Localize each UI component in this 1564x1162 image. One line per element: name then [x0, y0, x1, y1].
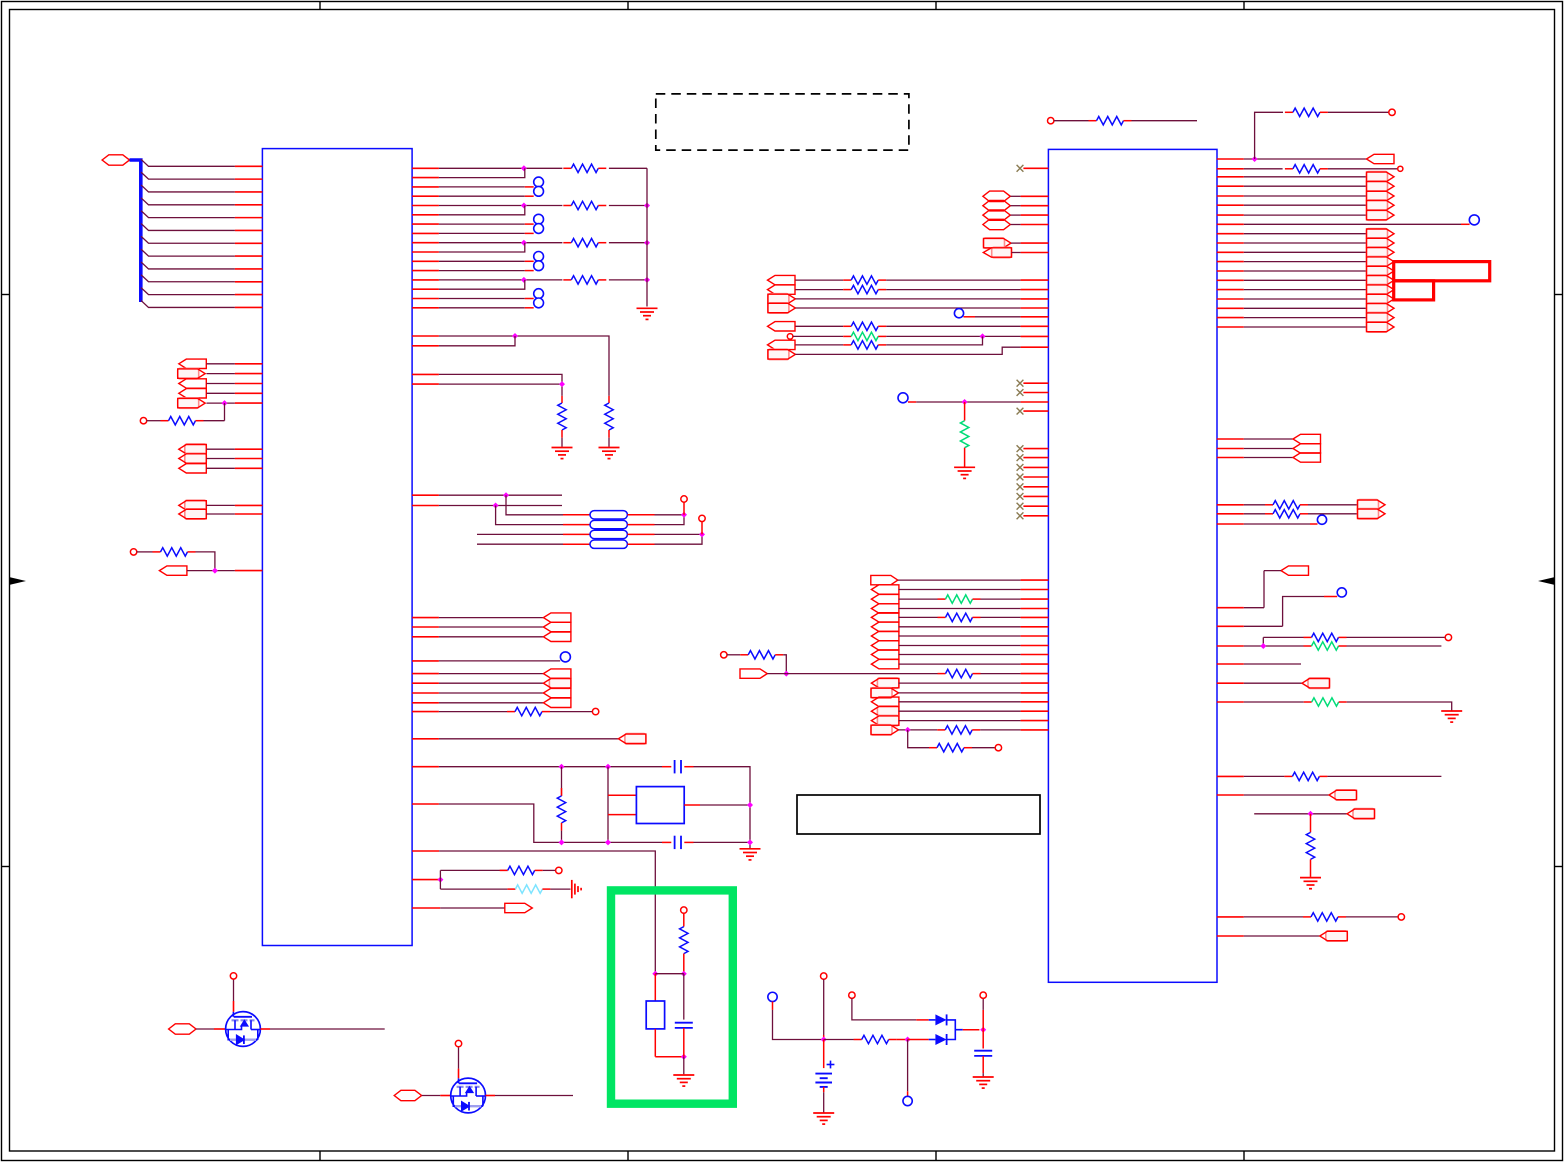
junction [699, 531, 705, 537]
junction [521, 165, 527, 171]
highlight box red 2 [1394, 281, 1434, 300]
port flag [871, 650, 899, 659]
junction [521, 240, 527, 246]
port flag [871, 575, 898, 584]
port flag [871, 697, 899, 706]
wire [608, 438, 610, 447]
wire [982, 1030, 984, 1049]
wire [1244, 775, 1285, 777]
no-connect pin [1017, 474, 1024, 481]
diode D1 [935, 1014, 946, 1025]
ground rail [637, 307, 658, 309]
battery BT1 [823, 1040, 825, 1069]
wire [824, 1039, 854, 1041]
pin stub U1 right 10 [412, 251, 439, 253]
wire drain Q1 [233, 1001, 235, 1012]
wire bus bit 11 [141, 300, 235, 307]
wire R2 to rail [609, 205, 647, 207]
wire to R1 [439, 167, 563, 169]
port flag [1281, 566, 1309, 575]
port flag [1367, 181, 1388, 191]
open pin circle [1389, 109, 1395, 115]
resistor R18 [843, 325, 851, 327]
pin stub U1 left 8 [235, 268, 263, 270]
port flag [1367, 256, 1388, 266]
wire [422, 1095, 441, 1097]
highlight box red [1394, 262, 1490, 281]
wire [1461, 223, 1470, 225]
wire [907, 1040, 909, 1092]
port flag [877, 706, 899, 716]
wire [795, 347, 1020, 354]
port flag [1367, 266, 1388, 276]
pin stub U1 right 1 [412, 167, 439, 169]
wire [1244, 523, 1310, 525]
pin stub U1 right 7 [412, 223, 439, 225]
wire [795, 289, 843, 291]
wire [439, 660, 560, 662]
wire [899, 692, 1021, 694]
wire pair join 0 [439, 168, 525, 177]
wire [1244, 682, 1302, 684]
wire [1244, 233, 1367, 235]
wire [207, 467, 235, 469]
wire [439, 738, 619, 740]
wire drain Q2 [458, 1069, 460, 1079]
wire [1244, 242, 1367, 244]
pin stub [412, 660, 439, 662]
wire [700, 804, 750, 806]
wire [1308, 504, 1358, 506]
port flag [1367, 238, 1388, 248]
port flag [543, 688, 571, 697]
wire [1254, 813, 1347, 815]
wire [439, 702, 544, 704]
port flag [1367, 154, 1395, 163]
pin stub U1 right 14 [412, 288, 439, 290]
wire [1244, 298, 1367, 300]
junction [681, 512, 687, 518]
wire [963, 1029, 980, 1031]
ground [552, 447, 573, 449]
wire source Q1 [260, 1028, 270, 1030]
resistor R36 [1310, 814, 1312, 833]
port flag [178, 368, 199, 378]
pad circle 2b [534, 261, 544, 271]
resistor R33 [1304, 645, 1312, 647]
pin stub [412, 850, 439, 852]
wire [1324, 596, 1337, 598]
wire [655, 534, 703, 544]
resistor R35 [1284, 775, 1292, 777]
wire [964, 316, 976, 318]
pad circle [560, 652, 570, 662]
resistor R24 [740, 654, 748, 656]
wire [439, 336, 609, 396]
wire bus bit 3 [141, 198, 235, 205]
port flag [1293, 453, 1321, 462]
wire [1011, 242, 1021, 244]
no-connect pin [1017, 389, 1024, 396]
pin stub [412, 738, 439, 740]
wire [767, 673, 786, 675]
resistor R5 [161, 420, 169, 422]
wire [561, 438, 563, 447]
wire [439, 711, 507, 713]
wire [795, 307, 1020, 309]
open pin circle [1398, 166, 1403, 171]
pin stub U1 left 11 [235, 306, 263, 308]
open pin circle [130, 549, 136, 555]
wire [982, 1010, 984, 1030]
wire [439, 374, 562, 384]
wire to R4 [439, 279, 563, 281]
wire [1328, 168, 1397, 170]
wire [1244, 607, 1264, 609]
wire [655, 515, 685, 525]
resistor R8 [561, 396, 563, 403]
resistor R11 [500, 869, 508, 871]
port flag [1367, 172, 1388, 182]
wire [207, 363, 235, 365]
wire [1244, 261, 1367, 263]
net label [983, 210, 1010, 220]
port flag [768, 340, 796, 349]
junction [559, 764, 565, 770]
junction [905, 1037, 911, 1043]
wire to pad 0b [439, 195, 525, 197]
wire [975, 316, 1021, 318]
wire [1054, 120, 1089, 122]
junction [512, 333, 518, 339]
pin stub [1023, 167, 1048, 169]
port flag [877, 715, 899, 725]
wire [1244, 289, 1367, 291]
port flag [871, 585, 899, 594]
junction [747, 839, 753, 845]
resistor R17 [843, 289, 851, 291]
wire [980, 729, 1020, 731]
diode D2 [935, 1034, 946, 1045]
pin stub U1 right 13 [412, 279, 439, 281]
wire R1 to rail [609, 167, 647, 169]
wire [207, 513, 235, 515]
port flag [1367, 229, 1388, 239]
capacitor C2 [674, 836, 676, 849]
no-connect pin [1017, 408, 1024, 415]
junction [521, 203, 527, 209]
no-connect pin [1017, 493, 1024, 500]
wire [439, 766, 662, 768]
port flag [1293, 444, 1321, 453]
wire [899, 701, 1021, 703]
ground [813, 1112, 834, 1114]
pin stub [412, 383, 439, 385]
wire [1244, 168, 1283, 170]
wire [683, 1057, 685, 1075]
pin stub U1 left 10 [235, 294, 263, 296]
wire [187, 570, 235, 572]
wire [440, 907, 505, 909]
wire [1244, 270, 1367, 272]
wire [899, 589, 1021, 591]
port flag [871, 622, 899, 631]
pin stub [412, 803, 439, 805]
junction [605, 764, 611, 770]
port flag [768, 303, 789, 313]
wire pair join 3 [439, 280, 525, 289]
pin stub [412, 626, 439, 628]
wire source Q2 [486, 1095, 496, 1097]
port flag [871, 641, 899, 650]
wire [1346, 916, 1398, 918]
port flag [768, 275, 796, 284]
wire [1244, 158, 1367, 160]
wire [899, 710, 1021, 712]
wire to pad 3a [439, 298, 525, 300]
port flag [871, 688, 892, 698]
wire [1244, 513, 1265, 515]
net label [983, 219, 1010, 229]
resistor R12 [507, 888, 515, 890]
wire [886, 335, 1020, 337]
wire [899, 682, 1021, 684]
port flag [984, 238, 1005, 248]
wire bus bit 10 [141, 288, 235, 295]
wire [1244, 935, 1320, 937]
junction [212, 568, 218, 574]
junction [962, 399, 968, 405]
pin stub U1 left 2 [235, 191, 263, 193]
wire [439, 851, 655, 974]
resistor R1 [563, 167, 571, 169]
pin stub U1 right 12 [412, 270, 439, 272]
junction [1252, 156, 1258, 162]
wire [899, 635, 1021, 637]
wire [550, 888, 570, 890]
net label [983, 201, 1010, 211]
wire [506, 495, 563, 515]
port flag [871, 659, 899, 668]
wire [655, 973, 684, 975]
pad circle [1317, 515, 1326, 524]
port flag [992, 247, 1012, 257]
wire [1310, 523, 1318, 525]
wire [852, 998, 916, 1020]
wire [886, 325, 1020, 327]
wire [1244, 279, 1367, 281]
wire [916, 1019, 928, 1021]
resistor R21 [964, 402, 966, 421]
pin stub [412, 711, 439, 713]
capacitor C1 [674, 760, 676, 773]
wire [899, 663, 1021, 665]
wire [1244, 701, 1304, 703]
wire [1244, 438, 1293, 440]
wire [772, 1002, 774, 1010]
wire [543, 869, 556, 871]
wire [207, 383, 235, 385]
wire [1308, 513, 1358, 515]
pad circle [954, 309, 963, 318]
pad circle 1a [534, 214, 544, 224]
pin stub [412, 617, 439, 619]
wire [899, 616, 938, 618]
resistor R4 [563, 279, 571, 281]
wire [916, 401, 1020, 403]
wire bus bit 0 [141, 159, 235, 166]
black box [797, 795, 1040, 834]
port flag [768, 322, 796, 331]
resistor R13 [683, 913, 685, 926]
wire [1244, 448, 1293, 450]
port flag [185, 444, 207, 454]
wire [439, 384, 562, 396]
wire [1264, 570, 1281, 572]
wire [1244, 317, 1367, 319]
port flag [768, 294, 789, 304]
wire [1283, 597, 1324, 627]
pin stub [412, 766, 439, 768]
wire [783, 655, 786, 674]
no-connect pin [1017, 454, 1024, 461]
port flag [871, 594, 899, 603]
open pin circle [980, 992, 986, 998]
resistor R10 [561, 767, 563, 796]
wire [496, 506, 563, 525]
wire to pad 2b [439, 270, 525, 272]
port flag [179, 359, 207, 368]
pin stub [412, 907, 440, 909]
wire [439, 617, 544, 619]
port flag [1367, 191, 1388, 201]
wire [1244, 794, 1329, 796]
transistor Q2 [451, 1078, 486, 1113]
wire [795, 279, 843, 281]
wire [477, 533, 563, 535]
open pin circle [699, 515, 705, 521]
open pin circle [1445, 634, 1451, 640]
pin stub U1 right 11 [412, 260, 439, 262]
wire [1011, 195, 1021, 197]
port flag [543, 669, 571, 678]
pin stub U1 left 6 [235, 242, 263, 244]
port flag [1353, 809, 1375, 819]
wire [439, 494, 562, 496]
wire [972, 747, 995, 749]
wire pair join 1 [439, 206, 525, 215]
resistor R3 [563, 242, 571, 244]
pin stub U1 right 2 [412, 177, 439, 179]
IC U2 [1048, 149, 1217, 982]
wire [654, 1029, 656, 1057]
capacitor C3 [675, 1022, 693, 1024]
resistor R23 [938, 616, 946, 618]
wire [207, 392, 235, 394]
port flag [1367, 200, 1388, 210]
port flag [505, 903, 533, 912]
resistor R2 [563, 205, 571, 207]
wire to pad 1b [439, 232, 525, 234]
resistor R27 [929, 747, 937, 749]
wire bus bit 6 [141, 236, 235, 243]
pin stub [412, 636, 439, 638]
wire [899, 598, 938, 600]
wire [439, 626, 544, 628]
pin stub [412, 682, 439, 684]
wire [207, 458, 235, 460]
wire to pad 2a [439, 260, 525, 262]
wire to pad 1a [439, 223, 525, 225]
junction [821, 1037, 827, 1043]
wire [1244, 663, 1301, 665]
resistor R31 [1265, 513, 1273, 515]
wire to R5 [224, 403, 226, 421]
wire [1244, 645, 1304, 647]
junction [1308, 811, 1314, 817]
port flag [1367, 284, 1388, 294]
pin stub U1 left 0 [235, 165, 263, 167]
wire [655, 514, 685, 516]
wire [899, 654, 1021, 656]
wire [439, 336, 515, 346]
wire [147, 420, 161, 422]
wire [823, 979, 825, 1035]
junction [905, 727, 911, 733]
port flag [877, 678, 899, 688]
pad circle 3a [534, 289, 544, 299]
wire [439, 636, 544, 638]
wire [694, 767, 751, 848]
junction [980, 1027, 986, 1033]
port flag [159, 566, 187, 575]
pin stub U1 right 6 [412, 214, 439, 216]
pin stub U1 right 3 [412, 186, 439, 188]
wire [1244, 307, 1367, 309]
wire [1244, 326, 1367, 328]
port flag [1358, 509, 1379, 519]
wire [439, 505, 562, 507]
junction [681, 971, 687, 977]
junction [1260, 643, 1266, 649]
open pin circle [455, 1040, 461, 1046]
junction [503, 492, 509, 498]
wire [439, 692, 544, 694]
junction [437, 877, 443, 883]
ground [954, 466, 975, 468]
wire [1263, 571, 1265, 608]
wire [1011, 224, 1021, 226]
pad circle [903, 1096, 912, 1105]
wire [1012, 252, 1021, 254]
wire [899, 729, 938, 731]
wire [550, 711, 592, 713]
ground [973, 1076, 994, 1078]
wire [982, 1056, 984, 1073]
pin stub U1 left 1 [235, 178, 263, 180]
no-connect pin [1017, 380, 1024, 387]
wire bus bit 2 [141, 185, 235, 192]
pin stub [412, 335, 439, 337]
highlight box [611, 890, 733, 1103]
wire [793, 335, 843, 337]
wire [1255, 112, 1283, 159]
no-connect pin [1017, 165, 1024, 172]
wire [1347, 702, 1452, 711]
pin stub U1 left 7 [235, 255, 263, 257]
port flag [543, 698, 571, 707]
junction [783, 671, 789, 677]
